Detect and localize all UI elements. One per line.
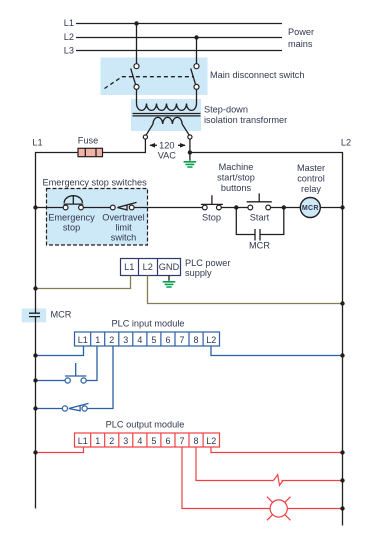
svg-text:7: 7: [179, 436, 184, 446]
svg-text:supply: supply: [185, 268, 212, 278]
svg-text:Master: Master: [297, 163, 325, 173]
svg-text:1: 1: [95, 436, 100, 446]
svg-text:2: 2: [109, 436, 114, 446]
svg-text:GND: GND: [159, 262, 180, 272]
svg-text:Overtravel: Overtravel: [102, 212, 144, 222]
svg-text:Emergency stop switches: Emergency stop switches: [43, 178, 148, 188]
svg-text:4: 4: [137, 436, 142, 446]
svg-text:8: 8: [193, 335, 198, 345]
svg-text:120: 120: [159, 141, 174, 151]
svg-text:6: 6: [165, 335, 170, 345]
svg-text:3: 3: [123, 436, 128, 446]
svg-text:isolation transformer: isolation transformer: [204, 115, 287, 125]
svg-text:L2: L2: [341, 138, 351, 148]
svg-text:Machine: Machine: [219, 162, 254, 172]
svg-text:MCR: MCR: [51, 309, 72, 319]
svg-text:3: 3: [123, 335, 128, 345]
svg-text:limit: limit: [115, 222, 132, 232]
svg-text:Main disconnect switch: Main disconnect switch: [210, 70, 304, 80]
svg-text:relay: relay: [301, 184, 321, 194]
svg-text:PLC output module: PLC output module: [106, 420, 185, 430]
svg-text:Emergency: Emergency: [48, 212, 95, 222]
svg-text:L3: L3: [64, 46, 74, 56]
svg-text:L2: L2: [143, 262, 153, 272]
svg-text:1: 1: [95, 335, 100, 345]
svg-text:Fuse: Fuse: [78, 136, 98, 146]
svg-text:L1: L1: [64, 18, 74, 28]
svg-text:2: 2: [109, 335, 114, 345]
svg-text:L1: L1: [78, 436, 88, 446]
svg-text:8: 8: [193, 436, 198, 446]
svg-text:5: 5: [151, 335, 156, 345]
svg-text:L2: L2: [206, 335, 216, 345]
svg-text:Start: Start: [250, 212, 270, 222]
svg-text:L1: L1: [124, 262, 134, 272]
svg-text:control: control: [297, 174, 325, 184]
svg-text:MCR: MCR: [302, 205, 319, 212]
svg-text:L1: L1: [78, 335, 88, 345]
svg-text:PLC input module: PLC input module: [111, 319, 184, 329]
svg-text:4: 4: [137, 335, 142, 345]
svg-text:7: 7: [179, 335, 184, 345]
svg-text:5: 5: [151, 436, 156, 446]
svg-text:Step-down: Step-down: [204, 105, 248, 115]
svg-text:start/stop: start/stop: [217, 173, 255, 183]
svg-text:Power: Power: [288, 27, 314, 37]
svg-text:L2: L2: [206, 436, 216, 446]
svg-text:switch: switch: [111, 232, 137, 242]
svg-text:stop: stop: [63, 222, 80, 232]
svg-text:mains: mains: [288, 39, 313, 49]
svg-text:L1: L1: [32, 138, 42, 148]
svg-text:VAC: VAC: [158, 151, 177, 161]
svg-text:buttons: buttons: [221, 183, 252, 193]
svg-text:PLC power: PLC power: [185, 258, 230, 268]
svg-text:Stop: Stop: [202, 212, 221, 222]
svg-text:6: 6: [165, 436, 170, 446]
svg-text:L2: L2: [64, 32, 74, 42]
svg-text:MCR: MCR: [249, 241, 270, 251]
